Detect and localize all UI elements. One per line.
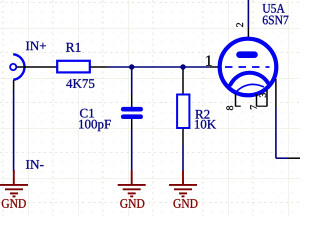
- tube pin 8 (black): [235, 94, 237, 107]
- tube U5A grid (dashed): [225, 66, 270, 68]
- label R1: [66, 43, 81, 52]
- wire node A to node B: [132, 66, 183, 68]
- wire R2 to GND3: [182, 145, 184, 170]
- tube pin 7 tick: [257, 105, 268, 107]
- tube pin 8 tick: [236, 105, 241, 107]
- capacitor C1 top pin (black): [131, 94, 133, 108]
- ground GND1 (left): [0, 170, 28, 196]
- label 100pF: [79, 120, 111, 131]
- wire (navy) R1 to node A: [108, 66, 132, 68]
- pin number 8 (rotated): [226, 106, 233, 110]
- wire node A down to C1: [131, 67, 133, 94]
- label U5A: [263, 4, 285, 13]
- capacitor C1 bottom pin (black): [131, 119, 133, 131]
- wire (pin, black) R1 right: [91, 66, 108, 68]
- tube U5A envelope circle: [220, 39, 277, 96]
- wire cathode horizontal (navy): [276, 157, 288, 159]
- node B junction: [180, 64, 185, 69]
- label IN-: [26, 160, 44, 169]
- wire cathode down (navy): [275, 107, 277, 158]
- label R2: [195, 110, 209, 119]
- resistor R2 body: [177, 95, 189, 129]
- pin number 3 (rotated): [259, 93, 266, 97]
- wire to right edge (black): [288, 157, 300, 159]
- connector J IN+ : pin circle: [10, 64, 16, 70]
- node A junction: [129, 64, 134, 69]
- resistor R1 body: [57, 61, 90, 73]
- connector J IN+ : arc: [13, 54, 24, 80]
- tube pin 3 (black): [266, 90, 268, 107]
- tube U5A cathode arc: [231, 73, 269, 85]
- tube U5A heater arc: [236, 84, 264, 92]
- ground GND2 (middle): [118, 170, 146, 196]
- resistor R2 bottom pin (black): [182, 129, 184, 146]
- ground GND3 (right): [169, 170, 197, 196]
- wire node B down (black pin) to R2: [182, 70, 184, 95]
- label 6SN7: [263, 16, 289, 25]
- wire (navy) down to GND1: [13, 90, 15, 171]
- pin number 1: [206, 55, 211, 65]
- label GND2: [120, 199, 144, 208]
- pin number 7 (rotated): [250, 105, 257, 109]
- tube U5A pin 2 wire (navy) from top edge: [247, 0, 249, 27]
- wire C1 to GND2: [131, 131, 133, 171]
- label C1: [80, 109, 94, 118]
- tube U5A anode plate bar: [240, 51, 255, 58]
- tube pin 1 (black): [209, 66, 220, 68]
- tube U5A pin 2 (black): [247, 27, 249, 39]
- label IN+: [26, 42, 46, 51]
- tube cathode lead (black): [275, 79, 277, 107]
- pin number 2 (rotated): [236, 23, 243, 27]
- wire (pins, black) connector to R1: [17, 66, 57, 68]
- label GND1: [2, 199, 26, 208]
- label GND3: [173, 199, 197, 208]
- capacitor C1 top plate: [123, 107, 141, 112]
- wire connector down (navy) to GND1: [13, 80, 15, 90]
- wire node B to tube pin 1: [183, 66, 209, 68]
- label 10K: [195, 120, 216, 129]
- capacitor C1 bottom plate: [123, 114, 141, 119]
- tube pin 7 (black): [256, 94, 258, 107]
- label 4K75: [66, 79, 94, 88]
